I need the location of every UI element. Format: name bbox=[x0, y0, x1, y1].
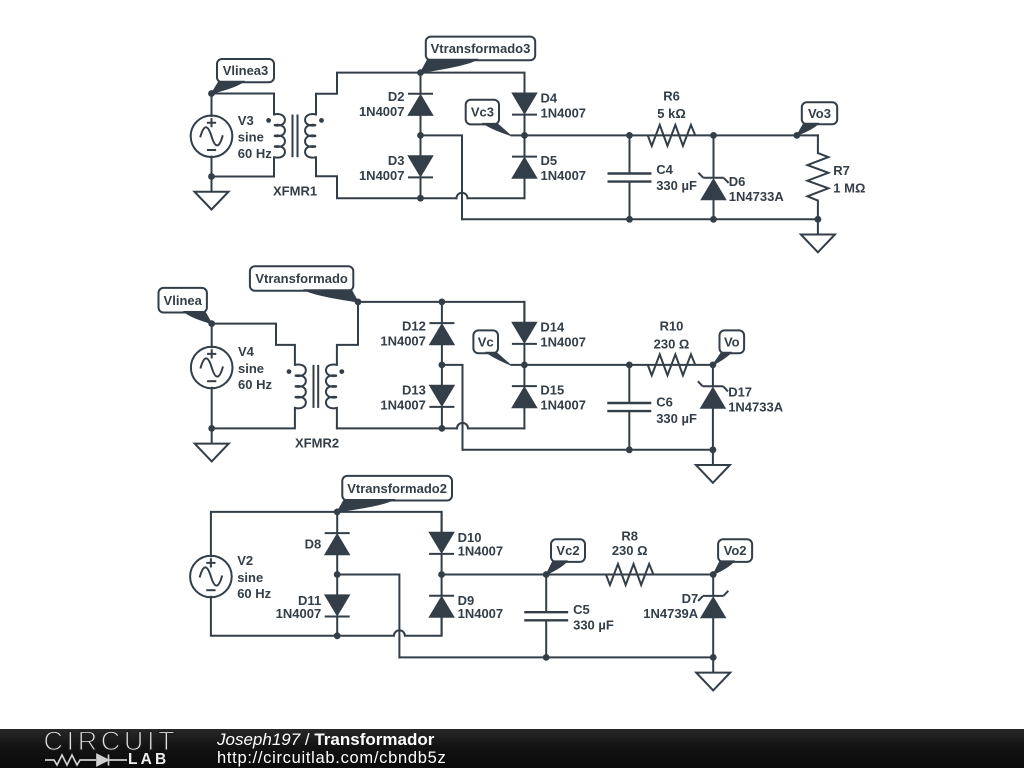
svg-text:Vo: Vo bbox=[724, 335, 740, 350]
node Vlinea3 bbox=[208, 90, 215, 97]
svg-text:C5: C5 bbox=[573, 602, 590, 617]
svg-text:1N4007: 1N4007 bbox=[380, 333, 426, 348]
wire D15 to bottom link bbox=[523, 407, 525, 428]
svg-text:1N4007: 1N4007 bbox=[540, 335, 586, 350]
wire V4 top bbox=[211, 324, 213, 348]
node Vlinea bbox=[208, 320, 215, 327]
node D6 bottom bbox=[710, 216, 717, 223]
svg-text:230 Ω: 230 Ω bbox=[612, 543, 648, 558]
node D7 bottom bbox=[710, 654, 717, 661]
capacitor C4 bbox=[608, 135, 652, 219]
node D10-D9 junction bbox=[438, 571, 445, 578]
capacitor C5 bbox=[524, 575, 568, 658]
svg-text:sine: sine bbox=[238, 361, 264, 376]
svg-text:XFMR2: XFMR2 bbox=[295, 436, 339, 451]
ground under R7 bbox=[801, 219, 835, 252]
node flag Vtransformado2 bbox=[342, 476, 452, 501]
node flag Vlinea bbox=[159, 288, 207, 313]
transformer XFMR2 bbox=[287, 364, 345, 408]
node C4 top bbox=[626, 132, 633, 139]
wire top circuit ground rail bbox=[462, 218, 818, 220]
resistor R7 bbox=[807, 153, 828, 201]
CircuitLab logo text bbox=[44, 728, 179, 755]
wire middle ground rail bbox=[463, 449, 713, 451]
wire D8-D11 junction to ground rail bbox=[337, 575, 399, 658]
svg-text:D12: D12 bbox=[402, 318, 426, 333]
wire Vo3 to R7 bbox=[817, 135, 819, 153]
wire D2-D3 junction to ground rail bbox=[421, 135, 463, 219]
svg-text:sine: sine bbox=[237, 570, 263, 585]
node Vtransformado2 bbox=[334, 509, 341, 516]
resistor R6 bbox=[648, 125, 696, 146]
node flag Vc2 bbox=[551, 539, 585, 562]
node Vo3 bbox=[793, 132, 800, 139]
node flag Vo2 bbox=[718, 539, 752, 562]
svg-text:C4: C4 bbox=[656, 162, 673, 177]
svg-text:1N4007: 1N4007 bbox=[458, 544, 504, 559]
voltage source V2 bbox=[190, 556, 232, 598]
svg-text:5 kΩ: 5 kΩ bbox=[657, 106, 686, 121]
node Vtransformado bbox=[355, 299, 362, 306]
svg-text:D13: D13 bbox=[402, 383, 426, 398]
svg-text:R7: R7 bbox=[833, 163, 850, 178]
svg-text:Vo2: Vo2 bbox=[724, 543, 747, 558]
svg-text:sine: sine bbox=[238, 130, 264, 145]
ground under V4 bbox=[195, 428, 229, 461]
node C5 bottom bbox=[543, 654, 550, 661]
wire R7 to ground rail bbox=[817, 201, 819, 220]
zener diode D17 bbox=[698, 365, 728, 450]
node Vo bbox=[710, 362, 717, 369]
svg-text:1N4007: 1N4007 bbox=[540, 398, 586, 413]
node flag Vo3 bbox=[802, 102, 837, 124]
node Vc2 bbox=[543, 571, 550, 578]
svg-text:1N4007: 1N4007 bbox=[276, 606, 322, 621]
svg-text:D2: D2 bbox=[388, 89, 405, 104]
node flag Vo bbox=[720, 330, 745, 353]
node flag Vtransformado bbox=[250, 266, 353, 291]
svg-text:D4: D4 bbox=[541, 90, 558, 105]
svg-text:Vtransformado: Vtransformado bbox=[255, 271, 348, 286]
wire D5 to bottom link bbox=[524, 178, 526, 199]
svg-text:1N4007: 1N4007 bbox=[359, 168, 405, 183]
svg-text:V4: V4 bbox=[238, 344, 255, 359]
ground under D7 bbox=[696, 657, 730, 690]
footer title bbox=[217, 731, 434, 748]
node flag Vc bbox=[473, 330, 498, 353]
node D11 bottom junction bbox=[334, 632, 341, 639]
svg-text:D14: D14 bbox=[540, 320, 565, 335]
node V3-gnd junction bbox=[208, 173, 215, 180]
node Vc3 bbox=[521, 132, 528, 139]
node V4 bottom junction bbox=[208, 425, 215, 432]
resistor R10 bbox=[648, 354, 696, 375]
svg-text:60 Hz: 60 Hz bbox=[238, 377, 272, 392]
svg-text:330 µF: 330 µF bbox=[656, 178, 697, 193]
svg-text:1N4733A: 1N4733A bbox=[729, 189, 785, 204]
svg-text:D15: D15 bbox=[540, 383, 564, 398]
svg-text:Vo3: Vo3 bbox=[808, 106, 831, 121]
wire Vc rail bbox=[524, 364, 713, 366]
wire V3 top bbox=[211, 94, 213, 117]
wire Vc2 rail bbox=[442, 574, 714, 576]
diode D5 bbox=[512, 135, 537, 177]
wire middle top rail bbox=[358, 301, 524, 303]
svg-text:Vlinea3: Vlinea3 bbox=[223, 63, 269, 78]
svg-text:V3: V3 bbox=[238, 113, 254, 128]
wire Vc3 rail bbox=[525, 134, 818, 136]
svg-text:R6: R6 bbox=[663, 89, 680, 104]
wire XFMR1 primary bottom bbox=[212, 157, 275, 176]
footer url bbox=[217, 750, 446, 767]
wire V2 top rail bbox=[211, 512, 442, 556]
svg-text:Vc2: Vc2 bbox=[556, 543, 579, 558]
node C6 top bbox=[626, 362, 633, 369]
diode D2 bbox=[408, 73, 433, 136]
diode D3 bbox=[408, 135, 433, 198]
wire D3 to D5 with hop bbox=[421, 193, 525, 198]
svg-text:R8: R8 bbox=[621, 529, 638, 544]
node D2-D3 junction bbox=[417, 132, 424, 139]
wire bottom ground rail bbox=[399, 656, 713, 658]
CircuitLab logo LAB bbox=[128, 752, 169, 768]
wire secondary bottom link with hop bbox=[337, 423, 525, 429]
svg-text:330 µF: 330 µF bbox=[656, 411, 697, 426]
svg-text:Vtransformado2: Vtransformado2 bbox=[347, 481, 447, 496]
node Vo2 bbox=[710, 571, 717, 578]
wire V3 bottom bbox=[211, 157, 213, 177]
diode D11 bbox=[325, 575, 350, 636]
wire V2 bottom rail (left part) bbox=[211, 597, 394, 636]
logo resistor-diode squiggle bbox=[0, 729, 180, 768]
wire XFMR2 primary bottom bbox=[212, 408, 295, 429]
diode D9 bbox=[429, 575, 454, 636]
svg-text:1N4739A: 1N4739A bbox=[643, 606, 699, 621]
node D12-D13 junction bbox=[439, 362, 446, 369]
diode D10 bbox=[429, 512, 454, 575]
svg-text:D5: D5 bbox=[541, 153, 558, 168]
node C4 bottom bbox=[626, 216, 633, 223]
node flag Vtransformado3 bbox=[426, 37, 535, 61]
svg-text:330 µF: 330 µF bbox=[573, 617, 614, 632]
diode D15 bbox=[512, 365, 537, 407]
svg-text:R10: R10 bbox=[660, 319, 684, 334]
svg-text:D6: D6 bbox=[729, 174, 746, 189]
node D12 top bbox=[439, 299, 446, 306]
wire V3 to XFMR1 primary top bbox=[212, 94, 275, 115]
wire rail corner to D14 bbox=[523, 302, 525, 323]
svg-text:C6: C6 bbox=[656, 394, 673, 409]
svg-text:XFMR1: XFMR1 bbox=[273, 183, 317, 198]
ground under D17 bbox=[696, 450, 730, 483]
svg-text:D7: D7 bbox=[682, 591, 699, 606]
voltage source V3 bbox=[191, 116, 233, 158]
node R7 bottom bbox=[815, 216, 822, 223]
node flag Vc3 bbox=[466, 100, 499, 125]
zener diode D7 bbox=[698, 575, 728, 658]
wire top rail to D4 bbox=[421, 72, 525, 74]
diode D13 bbox=[429, 365, 454, 429]
svg-text:230 Ω: 230 Ω bbox=[654, 336, 690, 351]
ground under V3 bbox=[195, 177, 229, 210]
diode D14 bbox=[512, 302, 537, 365]
svg-text:1N4007: 1N4007 bbox=[541, 168, 587, 183]
node D17 bottom bbox=[710, 446, 717, 453]
wire XFMR2 secondary bottom bbox=[336, 408, 338, 429]
transformer XFMR1 bbox=[266, 114, 324, 158]
zener diode D6 bbox=[698, 135, 728, 219]
resistor R8 bbox=[606, 564, 654, 585]
svg-text:Vc3: Vc3 bbox=[471, 105, 494, 120]
node Vc bbox=[521, 362, 528, 369]
wire rail corner to D10 bbox=[441, 512, 443, 533]
wire V4 to XFMR2 primary top bbox=[212, 324, 295, 365]
wire V4 bottom bbox=[211, 388, 213, 429]
svg-text:1N4007: 1N4007 bbox=[380, 398, 426, 413]
wire D12-D13 junction to ground rail bbox=[442, 365, 463, 450]
wire XFMR1 secondary top to node bbox=[316, 73, 421, 115]
node D3 bottom junction bbox=[417, 195, 424, 202]
svg-text:1N4007: 1N4007 bbox=[541, 105, 587, 120]
wire XFMR2 secondary top bbox=[337, 302, 358, 365]
svg-text:Vlinea: Vlinea bbox=[164, 293, 203, 308]
svg-text:Vtransformado3: Vtransformado3 bbox=[431, 41, 531, 56]
svg-text:Vc: Vc bbox=[478, 335, 494, 350]
voltage source V4 bbox=[191, 347, 233, 389]
diode D4 bbox=[512, 73, 537, 136]
footer bar bbox=[0, 729, 1024, 768]
svg-text:60 Hz: 60 Hz bbox=[237, 586, 271, 601]
svg-text:D3: D3 bbox=[388, 153, 405, 168]
svg-text:1N4007: 1N4007 bbox=[458, 606, 504, 621]
svg-text:1N4007: 1N4007 bbox=[359, 104, 405, 119]
node flag Vlinea3 bbox=[217, 59, 274, 82]
svg-text:1 MΩ: 1 MΩ bbox=[833, 181, 865, 196]
svg-text:60 Hz: 60 Hz bbox=[238, 146, 272, 161]
wire V2 bottom rail hop bbox=[394, 630, 405, 636]
wire XFMR1 secondary bottom bbox=[316, 157, 421, 198]
svg-text:V2: V2 bbox=[237, 553, 253, 568]
svg-text:1N4733A: 1N4733A bbox=[728, 400, 784, 415]
capacitor C6 bbox=[607, 365, 651, 450]
svg-text:D17: D17 bbox=[728, 385, 752, 400]
node D8-D11 junction bbox=[334, 571, 341, 578]
svg-text:D8: D8 bbox=[305, 536, 322, 551]
node C6 bottom bbox=[626, 446, 633, 453]
node D13 bottom junction bbox=[439, 425, 446, 432]
wire V2 bottom rail (right part) bbox=[405, 616, 442, 636]
diode D8 bbox=[325, 512, 350, 575]
node Vtransformado3 bbox=[417, 69, 424, 76]
diode D12 bbox=[429, 302, 454, 365]
node D6 top bbox=[710, 132, 717, 139]
